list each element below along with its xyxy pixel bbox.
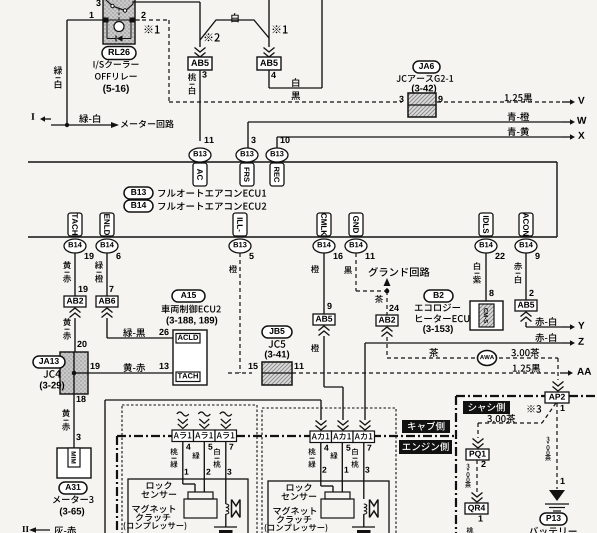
- connector AB2 box: [64, 296, 86, 307]
- compressor 2 pin 7: [367, 445, 371, 451]
- wire top to AB5-4: [268, 0, 270, 47]
- pin 3 label meter: [76, 434, 80, 440]
- compressor 1 pin 4: [186, 444, 191, 450]
- wire relay pin1 to meter circuit: [67, 19, 103, 21]
- connector AB2-24 box: [376, 315, 398, 326]
- ground circuit text: [369, 267, 430, 277]
- compressor 1 clutch symbol: [183, 483, 195, 485]
- ECU2 designator: [124, 200, 153, 212]
- compressor 1 ground: [214, 526, 237, 528]
- wire label 3.00 brown: [511, 348, 539, 357]
- JC4 label: [43, 370, 60, 378]
- pin label REC: [270, 163, 284, 186]
- compressor 2 connectors: [310, 431, 332, 443]
- dashed wire AB2 to AP2: [386, 337, 388, 358]
- connector AP2 box: [545, 392, 569, 403]
- compressor 2 lock sensor text: [287, 483, 312, 491]
- pin 19 label AB2: [79, 286, 88, 292]
- exit V arrow: [562, 101, 571, 103]
- wire label 3.00 brown 2: [487, 414, 515, 423]
- JC5 ref: [265, 351, 289, 360]
- wire color white-purple: [474, 262, 480, 270]
- ECU1 designator: [124, 187, 153, 199]
- wire color orange 2: [311, 344, 319, 352]
- dashed wire ILL to JC5: [239, 253, 241, 373]
- compressor 1 pin 7: [229, 444, 233, 450]
- connector arrow into AP2: [553, 387, 564, 392]
- connector QR4 box: [465, 503, 488, 514]
- pin 3 label: [202, 71, 206, 77]
- compressor 1 coil: [225, 479, 227, 504]
- JA6 ref: [412, 85, 436, 94]
- engine-cab boundary chain line: [117, 435, 456, 437]
- JA6 pin 9: [438, 96, 442, 102]
- compressor 2 pin 1: [345, 467, 349, 473]
- dashed wire JC5 to AA: [292, 372, 558, 374]
- wire AB5-9 to compressor: [323, 336, 325, 387]
- wire color below QR4: [467, 527, 474, 533]
- pin circle ENLD: [96, 239, 118, 253]
- pin 13 label: [160, 363, 169, 369]
- B13 circle REC pin 10: [266, 148, 288, 162]
- wire color label pink-white: [188, 73, 196, 81]
- compressor 2 pin 4: [324, 445, 329, 451]
- wire TACH to AB2: [74, 253, 76, 296]
- exit AA arrow: [560, 372, 569, 374]
- wire AB2 to JC4: [74, 318, 76, 352]
- wire CMLK to AB5-9: [323, 253, 325, 314]
- note mark 1 right: [273, 25, 288, 33]
- meter designator A31: [59, 482, 87, 494]
- compressor 2 wires: [320, 443, 322, 487]
- compressor 1 pin 1: [185, 469, 189, 475]
- chassis boundary chain line: [455, 396, 457, 533]
- wire color red-white v: [514, 262, 522, 270]
- connector arrow AB5-9: [319, 326, 330, 331]
- wire color yellow-red h: [124, 363, 146, 372]
- wire color green-orange: [95, 261, 103, 269]
- connector arrow into AB5-3: [195, 53, 206, 58]
- JA6 connector box: [408, 93, 436, 117]
- pin circle CMLK: [313, 239, 335, 253]
- curly connector arrow 1: [177, 412, 189, 416]
- pin circle ILL-: [229, 239, 251, 253]
- exit I arrow: [31, 113, 34, 120]
- relay pin 1 label: [90, 12, 94, 18]
- meter circuit line: [51, 124, 113, 126]
- connector AB5-2 box: [515, 300, 537, 311]
- exit Y arrow: [562, 326, 571, 328]
- connector arrow into Aka1-1: [316, 426, 327, 431]
- compressor 2 dashed box: [262, 408, 396, 533]
- wire ACON to AB5-2: [525, 253, 527, 300]
- ECU pin box TACH: [68, 213, 82, 236]
- wire color orange ILL: [229, 265, 237, 273]
- relay pin 2 label: [141, 12, 145, 18]
- wire label white: [231, 13, 238, 22]
- ECU box outline: [28, 161, 557, 163]
- wire color yellow-red v2: [63, 318, 71, 326]
- pin 20 label: [77, 341, 86, 347]
- dashed wire GND: [355, 253, 357, 291]
- battery ground symbol: [549, 490, 565, 501]
- curly connector arrow 2: [198, 412, 210, 416]
- wire JC4 to meter: [73, 394, 75, 448]
- pin 4 label: [271, 72, 276, 78]
- exit Z arrow: [562, 342, 571, 344]
- compressor 2 pin 2: [322, 467, 326, 473]
- wire lock sensor line: [104, 400, 106, 533]
- wire label red-white Z: [535, 333, 556, 342]
- pin 19 label JC4: [91, 363, 100, 369]
- exit X arrow: [562, 136, 571, 138]
- connector arrow AB6: [102, 308, 113, 313]
- wire AB5-2 to Y: [525, 322, 527, 327]
- ECU pin box IDLS: [479, 213, 493, 236]
- wire color yellow-red v3: [62, 409, 70, 417]
- cab side label: [402, 420, 450, 433]
- ECU pin box ILL-: [233, 213, 247, 236]
- ECU A15 designator: [172, 290, 205, 302]
- wire color brown 1: [375, 295, 383, 303]
- pin 8 label: [489, 290, 493, 296]
- splice AWA: [478, 351, 497, 366]
- wire color label green-white vertical: [54, 66, 63, 74]
- compressor 1 name: [132, 505, 175, 513]
- pin circle IDLS: [475, 239, 497, 253]
- A15 pin ACLD: [176, 334, 200, 344]
- JC5 pin 15: [249, 363, 258, 369]
- engine side label: [399, 440, 452, 454]
- compressor 2 clutch symbol: [321, 485, 333, 487]
- jumper white wire: [200, 20, 269, 40]
- relay RL26 designator oval: [102, 47, 136, 60]
- compressor 2 clutch plates: [370, 500, 379, 518]
- pin circle GND: [345, 239, 367, 253]
- ECU A15 box: [173, 330, 207, 385]
- joint JC4 box: [60, 352, 88, 394]
- wire label 1.25 black AA: [513, 364, 540, 373]
- compressor 2 pin 3: [365, 467, 369, 473]
- relay pin 3 label: [96, 0, 100, 6]
- connector arrow into Aka1-3: [360, 426, 371, 431]
- AP2 pin 1: [561, 405, 565, 411]
- compressor 2 ground: [352, 526, 375, 528]
- connector arrow AB2: [70, 308, 81, 313]
- QR4 pin 1: [479, 515, 483, 521]
- meter circuit text: [121, 120, 174, 128]
- dashed wire relay pin2 to V: [135, 19, 169, 21]
- pin 24 label: [389, 305, 399, 311]
- battery designator P13: [540, 513, 567, 525]
- wire color label green-white: [79, 114, 100, 123]
- connector JA6 oval: [413, 61, 440, 73]
- pin 26 label: [159, 329, 168, 335]
- connector PQ1 box: [466, 449, 489, 460]
- dashed wire to AB2-24: [386, 291, 388, 315]
- dashed wire AP2 to battery ground: [556, 403, 558, 489]
- compressor 1 lock sensor text: [147, 481, 172, 489]
- wire JC4 to A15 TACH: [88, 372, 173, 374]
- chassis side label: [463, 401, 510, 414]
- ECU pin box ACON: [519, 213, 533, 236]
- compressor 2 wire colors: [308, 448, 315, 455]
- wire IDLS to B2: [485, 253, 487, 301]
- battery name: [529, 527, 577, 533]
- connector AB5 pin4 box: [257, 57, 281, 70]
- JA6 name: [397, 75, 454, 82]
- compressor 1 clutch plates: [232, 500, 241, 518]
- connector arrow into Aka1-2: [338, 426, 349, 431]
- meter ref: [60, 508, 84, 517]
- B2 ref: [423, 325, 453, 334]
- joint JB5 oval: [262, 326, 292, 338]
- wire AB5-4 white: [268, 70, 270, 88]
- JA6 pin 3: [399, 96, 403, 102]
- wire compressor to Z: [364, 343, 366, 420]
- connector arrow AB2-24: [382, 327, 393, 332]
- A15 ref: [166, 317, 217, 326]
- wire label red-white Y: [535, 317, 556, 326]
- JC4 ref: [40, 382, 64, 391]
- wire AB6 to A15 ACLD: [106, 318, 108, 338]
- compressor 2 name: [273, 507, 316, 515]
- JC4 internal wire: [73, 352, 75, 394]
- connector AB6 box: [96, 296, 118, 307]
- wire color brown 2: [429, 348, 438, 357]
- B13 circle FRS pin 3: [236, 148, 258, 162]
- wire label white 2: [292, 78, 299, 87]
- pin 9 label AB5: [327, 303, 331, 309]
- connector arrow into QR4: [472, 498, 483, 503]
- pin label FRS: [240, 163, 254, 186]
- ECU pin box GND: [349, 213, 363, 236]
- connector AB5 pin3 box: [188, 57, 212, 70]
- note mark 3: [527, 405, 541, 413]
- pin label AC: [193, 163, 207, 186]
- wire color 3.00 brown v2: [546, 437, 549, 442]
- relay RL26 name text: [94, 60, 139, 69]
- joint JC5 box: [262, 362, 292, 385]
- compressor 1 wire colors: [170, 448, 177, 455]
- curly connector arrow 3: [220, 412, 232, 416]
- compressor 2 pin 5: [346, 445, 350, 451]
- wire AB5-3 to ECU AC: [199, 70, 201, 141]
- note mark 2: [205, 33, 220, 41]
- pin 18 label: [77, 396, 86, 402]
- connector arrow into PQ1: [473, 444, 484, 449]
- wire color orange CMLK: [311, 265, 319, 273]
- compressor 2 coil: [364, 504, 367, 514]
- compressor 1 pin 2: [206, 469, 210, 475]
- note mark 1 left: [145, 25, 160, 33]
- wire color 3.00 brown v1: [466, 464, 469, 469]
- B2 name1: [415, 304, 460, 312]
- compressor 1 pin 5: [208, 444, 212, 450]
- compressor 1 dashed box: [122, 405, 257, 533]
- A15 pin TACH: [176, 372, 200, 382]
- dashed wire PQ1 to QR4: [476, 460, 478, 492]
- connector arrow AB5-2: [521, 312, 532, 317]
- ground circuit junction: [385, 289, 390, 294]
- wire label black: [291, 91, 300, 100]
- compressor 1 box: [128, 479, 248, 533]
- wire label blue-orange: [508, 112, 530, 121]
- exit gray-red bottom: [33, 529, 50, 531]
- compressor 1 connectors: [172, 430, 194, 442]
- ECU pin box ENLD: [100, 213, 114, 236]
- wire color black GND: [344, 266, 352, 274]
- B2 name2: [416, 314, 469, 322]
- meter name: [53, 495, 94, 503]
- battery pin 1: [561, 478, 565, 484]
- exit W arrow: [562, 121, 571, 123]
- dashed wire AP2 to PQ1: [542, 403, 556, 423]
- meter box MIM: [57, 448, 91, 478]
- pin 7 label: [109, 286, 113, 292]
- compressor 1 pin 3: [227, 469, 231, 475]
- pin 2 label: [529, 290, 533, 296]
- ground circuit arrow: [386, 285, 388, 291]
- wire ENLD to AB6: [106, 253, 108, 296]
- wire color green-black: [123, 328, 145, 337]
- joint JA13 oval: [33, 356, 65, 368]
- ECU B2 designator: [424, 290, 453, 302]
- ECU pin box CMLK: [317, 213, 331, 236]
- relay RL26 internals: [98, 19, 140, 21]
- compressor 2 box: [268, 481, 389, 533]
- wire FRS to W: [247, 122, 249, 148]
- JC5 label: [268, 340, 285, 348]
- wire label 1.25 black: [505, 93, 532, 102]
- A15 name: [161, 305, 220, 314]
- connector AB5-9 box: [313, 314, 335, 325]
- connector arrow into AB5-4: [264, 53, 275, 58]
- wire relay to AB5 pin3: [133, 1, 200, 3]
- B13 circle AC pin 11: [189, 148, 211, 162]
- wire REC to X: [276, 137, 278, 148]
- PQ1 pin 2: [481, 461, 485, 467]
- relay RL26 body: [103, 0, 135, 44]
- pin circle ACON: [515, 239, 537, 253]
- ECU B2 box: [470, 301, 503, 330]
- compressor 1 wires: [182, 442, 184, 485]
- wire label blue-yellow: [508, 127, 529, 136]
- pin circle TACH: [64, 239, 86, 253]
- wire color yellow-red v1: [63, 261, 71, 269]
- JC5 pin 11: [295, 363, 304, 369]
